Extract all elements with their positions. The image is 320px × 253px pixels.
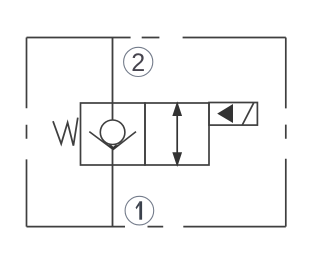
svg-text:2: 2 — [131, 49, 145, 77]
